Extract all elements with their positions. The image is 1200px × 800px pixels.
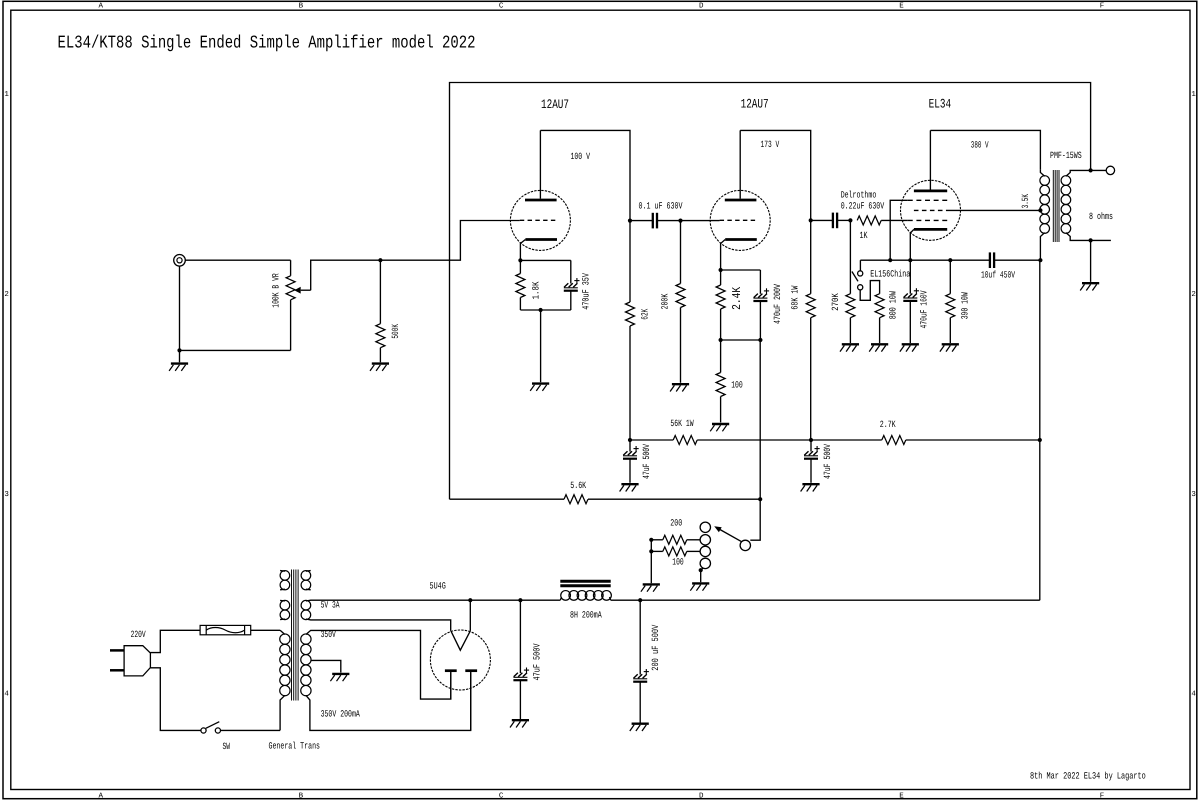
resistor 68K 1W xyxy=(806,294,815,318)
wire to 0.22uF xyxy=(811,219,833,221)
wire 100 top lead xyxy=(720,340,722,373)
svg-text:100K B VR: 100K B VR xyxy=(271,273,282,308)
switch EL156 lever xyxy=(852,272,858,282)
resistor 100 tube2 xyxy=(716,373,725,397)
wire 2.4K top xyxy=(720,270,722,285)
svg-text:350V: 350V xyxy=(321,629,336,640)
svg-text:EL34: EL34 xyxy=(929,97,952,112)
node B+ stage1 xyxy=(628,438,632,442)
wire 390 top xyxy=(949,260,951,294)
wire 470uF160 bottom xyxy=(909,301,911,343)
svg-text:100: 100 xyxy=(731,380,743,391)
ground rotary 4 xyxy=(692,582,709,584)
node rotary4 gnd xyxy=(699,568,703,572)
svg-text:F: F xyxy=(1100,793,1105,800)
capacitor 470uF 160V xyxy=(904,294,908,298)
wire 200 left lead xyxy=(651,539,663,541)
ground 47uF PSU xyxy=(512,719,529,721)
resistor 1K grid stopper xyxy=(857,216,881,225)
svg-text:PMF-15WS: PMF-15WS xyxy=(1050,150,1082,161)
svg-text:100 V: 100 V xyxy=(571,151,591,162)
wire 100 right lead xyxy=(687,550,700,552)
wire pot top lead xyxy=(290,260,292,276)
tube2 cathode bar xyxy=(725,238,757,241)
svg-text:390 10W: 390 10W xyxy=(959,292,970,319)
AC plug prong bottom xyxy=(110,669,124,672)
wire g3 to cathode bus xyxy=(890,200,908,260)
wire 47uF-1 bottom xyxy=(629,459,631,483)
wire NFB top rail xyxy=(450,83,1091,500)
switch EL156 top contact xyxy=(858,271,863,276)
wire 500K top xyxy=(379,260,381,324)
wire 68K bottom xyxy=(810,318,812,440)
wire cathode to cap top xyxy=(520,259,570,261)
tube 12AU7-2 envelope xyxy=(710,190,770,250)
resistor 100 selector xyxy=(663,547,687,556)
wire cathode bottom bus xyxy=(721,339,761,341)
EL34 cathode bar xyxy=(914,228,947,231)
wire tube2 cathode lead xyxy=(721,240,726,271)
wire rotary gnd stem xyxy=(700,570,702,582)
svg-text:800 10W: 800 10W xyxy=(888,291,899,319)
svg-text:200K: 200K xyxy=(660,293,671,309)
svg-text:B: B xyxy=(299,793,304,800)
potentiometer wiper arrow xyxy=(294,287,301,294)
svg-text:12AU7: 12AU7 xyxy=(541,97,569,112)
rotary lever arrow xyxy=(714,526,722,532)
svg-text:10uf 450V: 10uf 450V xyxy=(981,269,1015,280)
tube 12AU7-1 envelope xyxy=(510,190,570,250)
wire OPT primary bottom lead xyxy=(1040,233,1044,261)
node tube2 plate xyxy=(809,218,813,222)
node sel 100 left xyxy=(649,549,653,553)
5U4G filament V xyxy=(451,631,470,650)
wire plug neutral to SW xyxy=(150,668,201,731)
wire OPT primary top lead xyxy=(1040,170,1044,176)
wire OPT secondary bottom lead xyxy=(1066,233,1111,241)
svg-text:A: A xyxy=(98,3,103,11)
node tube1 cathode xyxy=(518,258,522,262)
wire to 0.1uF xyxy=(630,220,653,222)
switch SW lever xyxy=(206,722,220,729)
wire 800 bottom xyxy=(879,318,881,343)
tube2 grid dashes xyxy=(720,219,756,221)
svg-text:EL156China: EL156China xyxy=(870,269,910,280)
PT primary top lead xyxy=(280,630,285,634)
svg-text:C: C xyxy=(499,2,504,11)
PT stub L R1 bottom xyxy=(280,588,285,591)
wire tube2 plate up xyxy=(739,130,741,198)
wire 1.8K bottom xyxy=(519,298,521,311)
wire 1.8K top xyxy=(519,260,521,273)
svg-text:SW: SW xyxy=(223,741,231,752)
resistor 800 10W xyxy=(875,294,884,318)
svg-text:8H 200mA: 8H 200mA xyxy=(570,610,602,621)
svg-text:500K: 500K xyxy=(390,324,401,339)
output terminal 8 ohm xyxy=(1106,166,1114,174)
svg-text:270K: 270K xyxy=(830,293,841,311)
wire plug hot to fuse xyxy=(150,630,200,652)
resistor 1.8K xyxy=(516,274,525,298)
svg-text:E: E xyxy=(899,793,904,800)
wire cathode bus to B+ xyxy=(994,259,1040,261)
PT stub L R1 top xyxy=(280,570,285,573)
wire 270K top xyxy=(849,220,851,293)
svg-text:68K 1W: 68K 1W xyxy=(790,285,801,309)
PT right winding R1 xyxy=(301,571,311,581)
svg-text:12AU7: 12AU7 xyxy=(741,97,769,112)
wire 47uF PSU bottom xyxy=(519,680,521,719)
rotary contact 4 xyxy=(700,558,710,568)
input jack J1 xyxy=(174,254,186,266)
wire B+ 56K right xyxy=(697,439,811,441)
node grid feed xyxy=(378,258,382,262)
node UL tap xyxy=(1038,208,1042,212)
wire cathode bus left xyxy=(860,259,989,261)
node 100 top xyxy=(719,338,723,342)
wire 2.4K bottom xyxy=(720,309,722,340)
wire 62K bottom xyxy=(629,326,631,440)
node NFB takeoff xyxy=(1089,168,1093,172)
ground HV center tap xyxy=(332,673,349,675)
ground 200uF xyxy=(632,723,649,725)
svg-text:2.7K: 2.7K xyxy=(880,419,896,430)
svg-text:5U4G: 5U4G xyxy=(430,581,447,592)
ground 200K xyxy=(672,383,689,385)
rotary contact 2 xyxy=(700,535,710,545)
ground 390 10W xyxy=(942,343,959,345)
PT stub L R2 top xyxy=(280,599,285,602)
node B+ stage2 xyxy=(809,438,813,442)
svg-text:47uF 500V: 47uF 500V xyxy=(822,444,833,479)
capacitor 10uf 450V xyxy=(989,252,991,268)
svg-text:3.5K: 3.5K xyxy=(1020,194,1031,208)
svg-text:380 V: 380 V xyxy=(971,139,989,150)
resistor 2.7K xyxy=(882,436,906,445)
wire 68K top xyxy=(810,220,812,293)
node secondary ground junction xyxy=(1089,238,1093,242)
rotary contact 1 xyxy=(700,522,710,532)
svg-text:5.6K: 5.6K xyxy=(570,480,586,491)
OPT primary winding xyxy=(1040,176,1050,186)
svg-text:0.22uF 630V: 0.22uF 630V xyxy=(841,200,885,211)
wire wiper up to grid node xyxy=(311,260,381,290)
svg-text:F: F xyxy=(1100,3,1105,11)
EL34 plate bar xyxy=(914,190,947,193)
capacitor 0.1uF 630V xyxy=(652,213,654,229)
wire 200K bottom xyxy=(680,308,682,383)
switch SW contact right xyxy=(215,728,220,733)
wire choke to 200uF xyxy=(611,599,641,601)
node cathode gnd junction xyxy=(539,308,543,312)
wire cathode to cap xyxy=(721,269,761,271)
resistor 270K xyxy=(846,294,855,318)
node 200uF xyxy=(638,598,642,602)
svg-text:1.8K: 1.8K xyxy=(531,281,542,299)
ground 500K xyxy=(372,362,389,364)
svg-text:1: 1 xyxy=(1191,91,1196,99)
wire to 12AU7-1 grid xyxy=(380,221,519,261)
svg-text:2.4K: 2.4K xyxy=(730,286,744,310)
node filter cap 47uF xyxy=(518,598,522,602)
svg-text:470uF 200V: 470uF 200V xyxy=(772,284,783,324)
wire jack to pot top xyxy=(185,259,290,261)
switch SW contact left xyxy=(201,728,206,733)
ground 47uF stage1 xyxy=(621,483,638,485)
wire 470uF200 top xyxy=(759,270,761,294)
wire B+ riser upper xyxy=(1039,260,1041,440)
wire 470uF200 bottom xyxy=(759,301,761,340)
resistor 56K 1W xyxy=(673,436,697,445)
wire g2 to UL tap xyxy=(951,209,1041,211)
wire HV top to anode1 xyxy=(306,630,451,699)
ground selector resistors xyxy=(643,583,660,585)
AC plug prong top xyxy=(110,649,124,652)
rotary lever xyxy=(719,529,742,542)
rotary contact 3 xyxy=(700,546,710,556)
wire HV center tap xyxy=(311,660,341,672)
svg-text:Delrothmo: Delrothmo xyxy=(841,190,877,201)
wire SW to transformer xyxy=(221,729,281,731)
wire NFB to rotary common xyxy=(750,499,760,540)
OPT core xyxy=(1052,170,1054,242)
node g3 junction xyxy=(888,258,892,262)
ground tube1 cathode xyxy=(532,382,549,384)
wire EL34 plate up xyxy=(929,130,931,189)
wire to 12AU7-2 grid xyxy=(681,220,720,222)
wire 470uF160 top xyxy=(909,260,911,294)
wire 470uF35 top xyxy=(570,260,572,283)
wire 200uF top xyxy=(639,600,641,674)
resistor 62K xyxy=(626,302,635,326)
wire 200uF bottom xyxy=(639,682,641,723)
capacitor 47uF 500V PSU xyxy=(514,673,518,677)
svg-text:173 V: 173 V xyxy=(761,139,780,150)
wire B+ 56K left xyxy=(630,439,673,441)
svg-text:D: D xyxy=(699,3,704,11)
node OPT primary bottom B+ xyxy=(1038,258,1042,262)
wire tube1 plate to node xyxy=(540,130,630,220)
wire 500K bottom xyxy=(379,348,381,363)
node rectifier output xyxy=(468,598,472,602)
5U4G anode 2 bar xyxy=(465,669,477,672)
potentiometer VR1 100K B body xyxy=(286,276,295,300)
EL34 g3 dashes xyxy=(908,199,947,201)
wire 0.22uF out xyxy=(837,219,850,221)
wire 100 bottom lead xyxy=(720,397,722,423)
capacitor 0.22uF 630V Delrothmo xyxy=(832,213,834,229)
svg-text:2: 2 xyxy=(1191,290,1196,299)
svg-text:5V 3A: 5V 3A xyxy=(321,600,340,611)
svg-text:200 uF 500V: 200 uF 500V xyxy=(650,624,661,670)
wire 5V bottom to heater xyxy=(306,619,451,631)
resistor 500K xyxy=(376,324,385,348)
wire to choke xyxy=(520,599,560,601)
node 390 junction xyxy=(948,258,952,262)
tube1 cathode bar xyxy=(525,238,557,241)
node tube1 plate/coupling xyxy=(628,219,632,223)
svg-text:1K: 1K xyxy=(860,230,868,241)
wire B+ to riser xyxy=(640,599,1040,601)
capacitor 470uF 200V xyxy=(754,294,758,298)
ground tube2 100 xyxy=(712,423,729,425)
node NFB inject xyxy=(758,338,762,342)
wire cathode bottom bus xyxy=(520,309,570,311)
node cathode junction xyxy=(908,258,912,262)
wire 470uF35 bottom xyxy=(570,291,572,310)
svg-text:4: 4 xyxy=(1191,691,1196,699)
resistor 390 10W xyxy=(946,294,955,318)
node tube2 cathode xyxy=(719,268,723,272)
svg-text:2: 2 xyxy=(4,290,9,299)
wire B+ riser lower xyxy=(1039,440,1041,600)
resistor 2.4K xyxy=(716,285,725,309)
PT left winding R1 xyxy=(280,571,290,581)
wire B+ 2.7K left xyxy=(811,439,882,441)
switch EL156 bottom contact xyxy=(858,285,863,290)
PT primary bottom lead xyxy=(280,695,285,730)
wire 47uF-2 bottom xyxy=(810,459,812,483)
svg-text:4: 4 xyxy=(4,691,9,699)
wire tube1 cathode lead xyxy=(520,240,525,261)
node sel 200 left xyxy=(649,538,653,542)
wire NFB riser xyxy=(759,340,761,499)
wire rotary4 to gnd xyxy=(701,568,703,570)
wire 100 left lead xyxy=(651,550,663,552)
wire 5V top to rectifier xyxy=(306,599,470,602)
tube 5U4G envelope xyxy=(430,630,490,690)
svg-text:E: E xyxy=(899,3,904,11)
svg-text:D: D xyxy=(699,793,704,800)
wire pot bottom return xyxy=(180,349,291,351)
PT stub R R1 bottom xyxy=(306,588,311,591)
PT left winding R2 xyxy=(280,600,290,610)
wire NFB bottom right xyxy=(588,498,760,500)
wire B+ to filter cap xyxy=(470,599,520,601)
capacitor 200uF 500V xyxy=(634,674,638,678)
wire 62K top xyxy=(629,221,631,302)
wire 1K to g1 xyxy=(881,219,908,221)
ground 470uF 160V xyxy=(902,343,919,345)
PT primary winding xyxy=(280,634,290,644)
wire 5V to filament xyxy=(469,600,471,631)
choke lead right xyxy=(610,597,611,600)
wire to switch xyxy=(859,260,861,271)
wire OPT secondary top lead xyxy=(1066,170,1106,176)
rotary common xyxy=(740,540,750,550)
wire 390 bottom xyxy=(949,318,951,343)
fuse F1 xyxy=(200,625,251,634)
ground OPT secondary xyxy=(1082,282,1099,284)
wire EL34 cathode lead xyxy=(910,229,914,260)
ground 47uF stage2 xyxy=(802,483,819,485)
wire to ground xyxy=(179,350,181,362)
5U4G anode 1 bar xyxy=(445,669,457,672)
choke lead left xyxy=(560,597,561,600)
wire 47uF PSU top xyxy=(519,600,521,673)
wire 47uF-1 top xyxy=(629,440,631,452)
svg-text:8th Mar 2022 EL34 by Lagarto: 8th Mar 2022 EL34 by Lagarto xyxy=(1030,770,1146,781)
tube EL34 envelope xyxy=(901,180,961,240)
svg-text:1: 1 xyxy=(4,91,9,99)
wire wiper xyxy=(301,289,311,291)
PT stub R R1 top xyxy=(306,570,311,573)
wire 47uF-2 top xyxy=(810,440,812,452)
PT stub L R2 bottom xyxy=(280,618,285,621)
wire 270K bottom xyxy=(849,318,851,343)
svg-text:A: A xyxy=(98,793,103,800)
svg-text:EL34/KT88 Single Ended Simple: EL34/KT88 Single Ended Simple Amplifier … xyxy=(58,34,476,54)
AC plug 220V xyxy=(124,646,150,676)
choke core bars xyxy=(560,580,610,583)
wire anode2 stem xyxy=(470,672,472,730)
wire NFB bottom left xyxy=(450,498,565,500)
svg-text:8 ohms: 8 ohms xyxy=(1089,211,1113,222)
node B+ main xyxy=(1038,438,1042,442)
svg-text:62K: 62K xyxy=(640,309,651,320)
ground input xyxy=(171,362,188,364)
svg-text:350V 200mA: 350V 200mA xyxy=(321,708,360,719)
node EL34 grid leak xyxy=(848,218,852,222)
capacitor 470uF 35V xyxy=(564,283,568,287)
wire HV bottom to anode2 xyxy=(306,672,471,730)
ground 270K xyxy=(842,343,859,345)
wire fuse to transformer xyxy=(251,629,280,631)
svg-text:56K 1W: 56K 1W xyxy=(670,418,693,429)
wire 200K top xyxy=(680,221,682,284)
capacitor 47uF 500V stage1 xyxy=(623,451,627,455)
tube1 plate bar xyxy=(525,199,557,202)
EL34 g1 dashes xyxy=(908,219,947,221)
power transformer core xyxy=(291,570,293,701)
wire jack sleeve down xyxy=(179,266,181,350)
resistor 200 xyxy=(663,535,687,544)
svg-text:100: 100 xyxy=(672,557,684,568)
wire to ground xyxy=(540,310,542,382)
resistor 5.6K NFB xyxy=(564,495,588,504)
capacitor 47uF 500V stage2 xyxy=(804,451,808,455)
svg-text:B: B xyxy=(299,3,304,11)
PT HV winding xyxy=(301,634,311,644)
node jack ground junction xyxy=(177,348,181,352)
svg-text:3: 3 xyxy=(1191,490,1196,499)
EL34 g2 dashes xyxy=(914,209,951,211)
wire sel common gnd xyxy=(650,540,652,583)
OPT secondary winding xyxy=(1061,176,1071,186)
wire 0.1uF to grid node xyxy=(657,220,681,222)
svg-text:470uF 35V: 470uF 35V xyxy=(580,273,591,310)
resistor 200K xyxy=(676,284,685,308)
wire EL34 plate to OPT xyxy=(930,130,1040,169)
node NFB to cathode riser xyxy=(758,497,762,501)
node tube2 grid xyxy=(678,219,682,223)
wire secondary to ground xyxy=(1090,240,1092,282)
wire switch to 800 10W xyxy=(860,281,879,301)
svg-text:200: 200 xyxy=(670,518,682,529)
wire 200 right lead xyxy=(687,539,700,541)
svg-text:220V: 220V xyxy=(131,629,146,640)
svg-text:3: 3 xyxy=(4,490,9,499)
choke 8H 200mA winding xyxy=(561,591,571,601)
svg-text:0.1 uF 630V: 0.1 uF 630V xyxy=(639,200,683,211)
wire anode1 stem xyxy=(450,672,452,699)
ground 800 10W xyxy=(871,343,888,345)
wire tube1 plate up xyxy=(539,130,541,198)
tube2 plate bar xyxy=(725,199,757,202)
wire B+ 2.7K right xyxy=(906,439,1040,441)
wire tube2 plate to node xyxy=(740,130,811,220)
svg-text:470uF 160V: 470uF 160V xyxy=(919,290,930,328)
